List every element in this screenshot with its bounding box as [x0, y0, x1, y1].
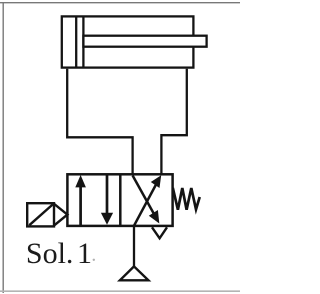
wire left: cylinder cap-end port down to valve port A: [67, 69, 132, 176]
svg-text:1: 1: [77, 237, 92, 270]
valve right box crossed arrow down-right: [133, 176, 160, 224]
solenoid actuator triangle: [54, 204, 67, 226]
wire valve bottom port to exhaust: [133, 226, 135, 266]
exhaust triangle: [120, 266, 148, 280]
valve left box flow arrow up: [75, 175, 86, 226]
cylinder C1 body: [62, 16, 194, 67]
valve V1 body (2-position): [67, 174, 172, 226]
solenoid SOL1 box: [27, 203, 54, 226]
cylinder piston rod: [83, 36, 206, 47]
exhaust check triangle under valve port: [152, 227, 167, 238]
valve position divider: [119, 174, 122, 226]
wire right: cylinder rod-end port down to valve port B: [161, 69, 186, 176]
return spring: [173, 188, 200, 210]
label trailing dot: [93, 259, 95, 261]
cylinder piston line 2: [82, 16, 84, 67]
valve left box flow arrow down: [101, 174, 113, 224]
valve right box crossed arrow up-right: [134, 175, 161, 226]
cylinder piston line 1: [75, 16, 77, 67]
solenoid diagonal: [29, 204, 53, 225]
svg-text:Sol.: Sol.: [26, 237, 74, 270]
